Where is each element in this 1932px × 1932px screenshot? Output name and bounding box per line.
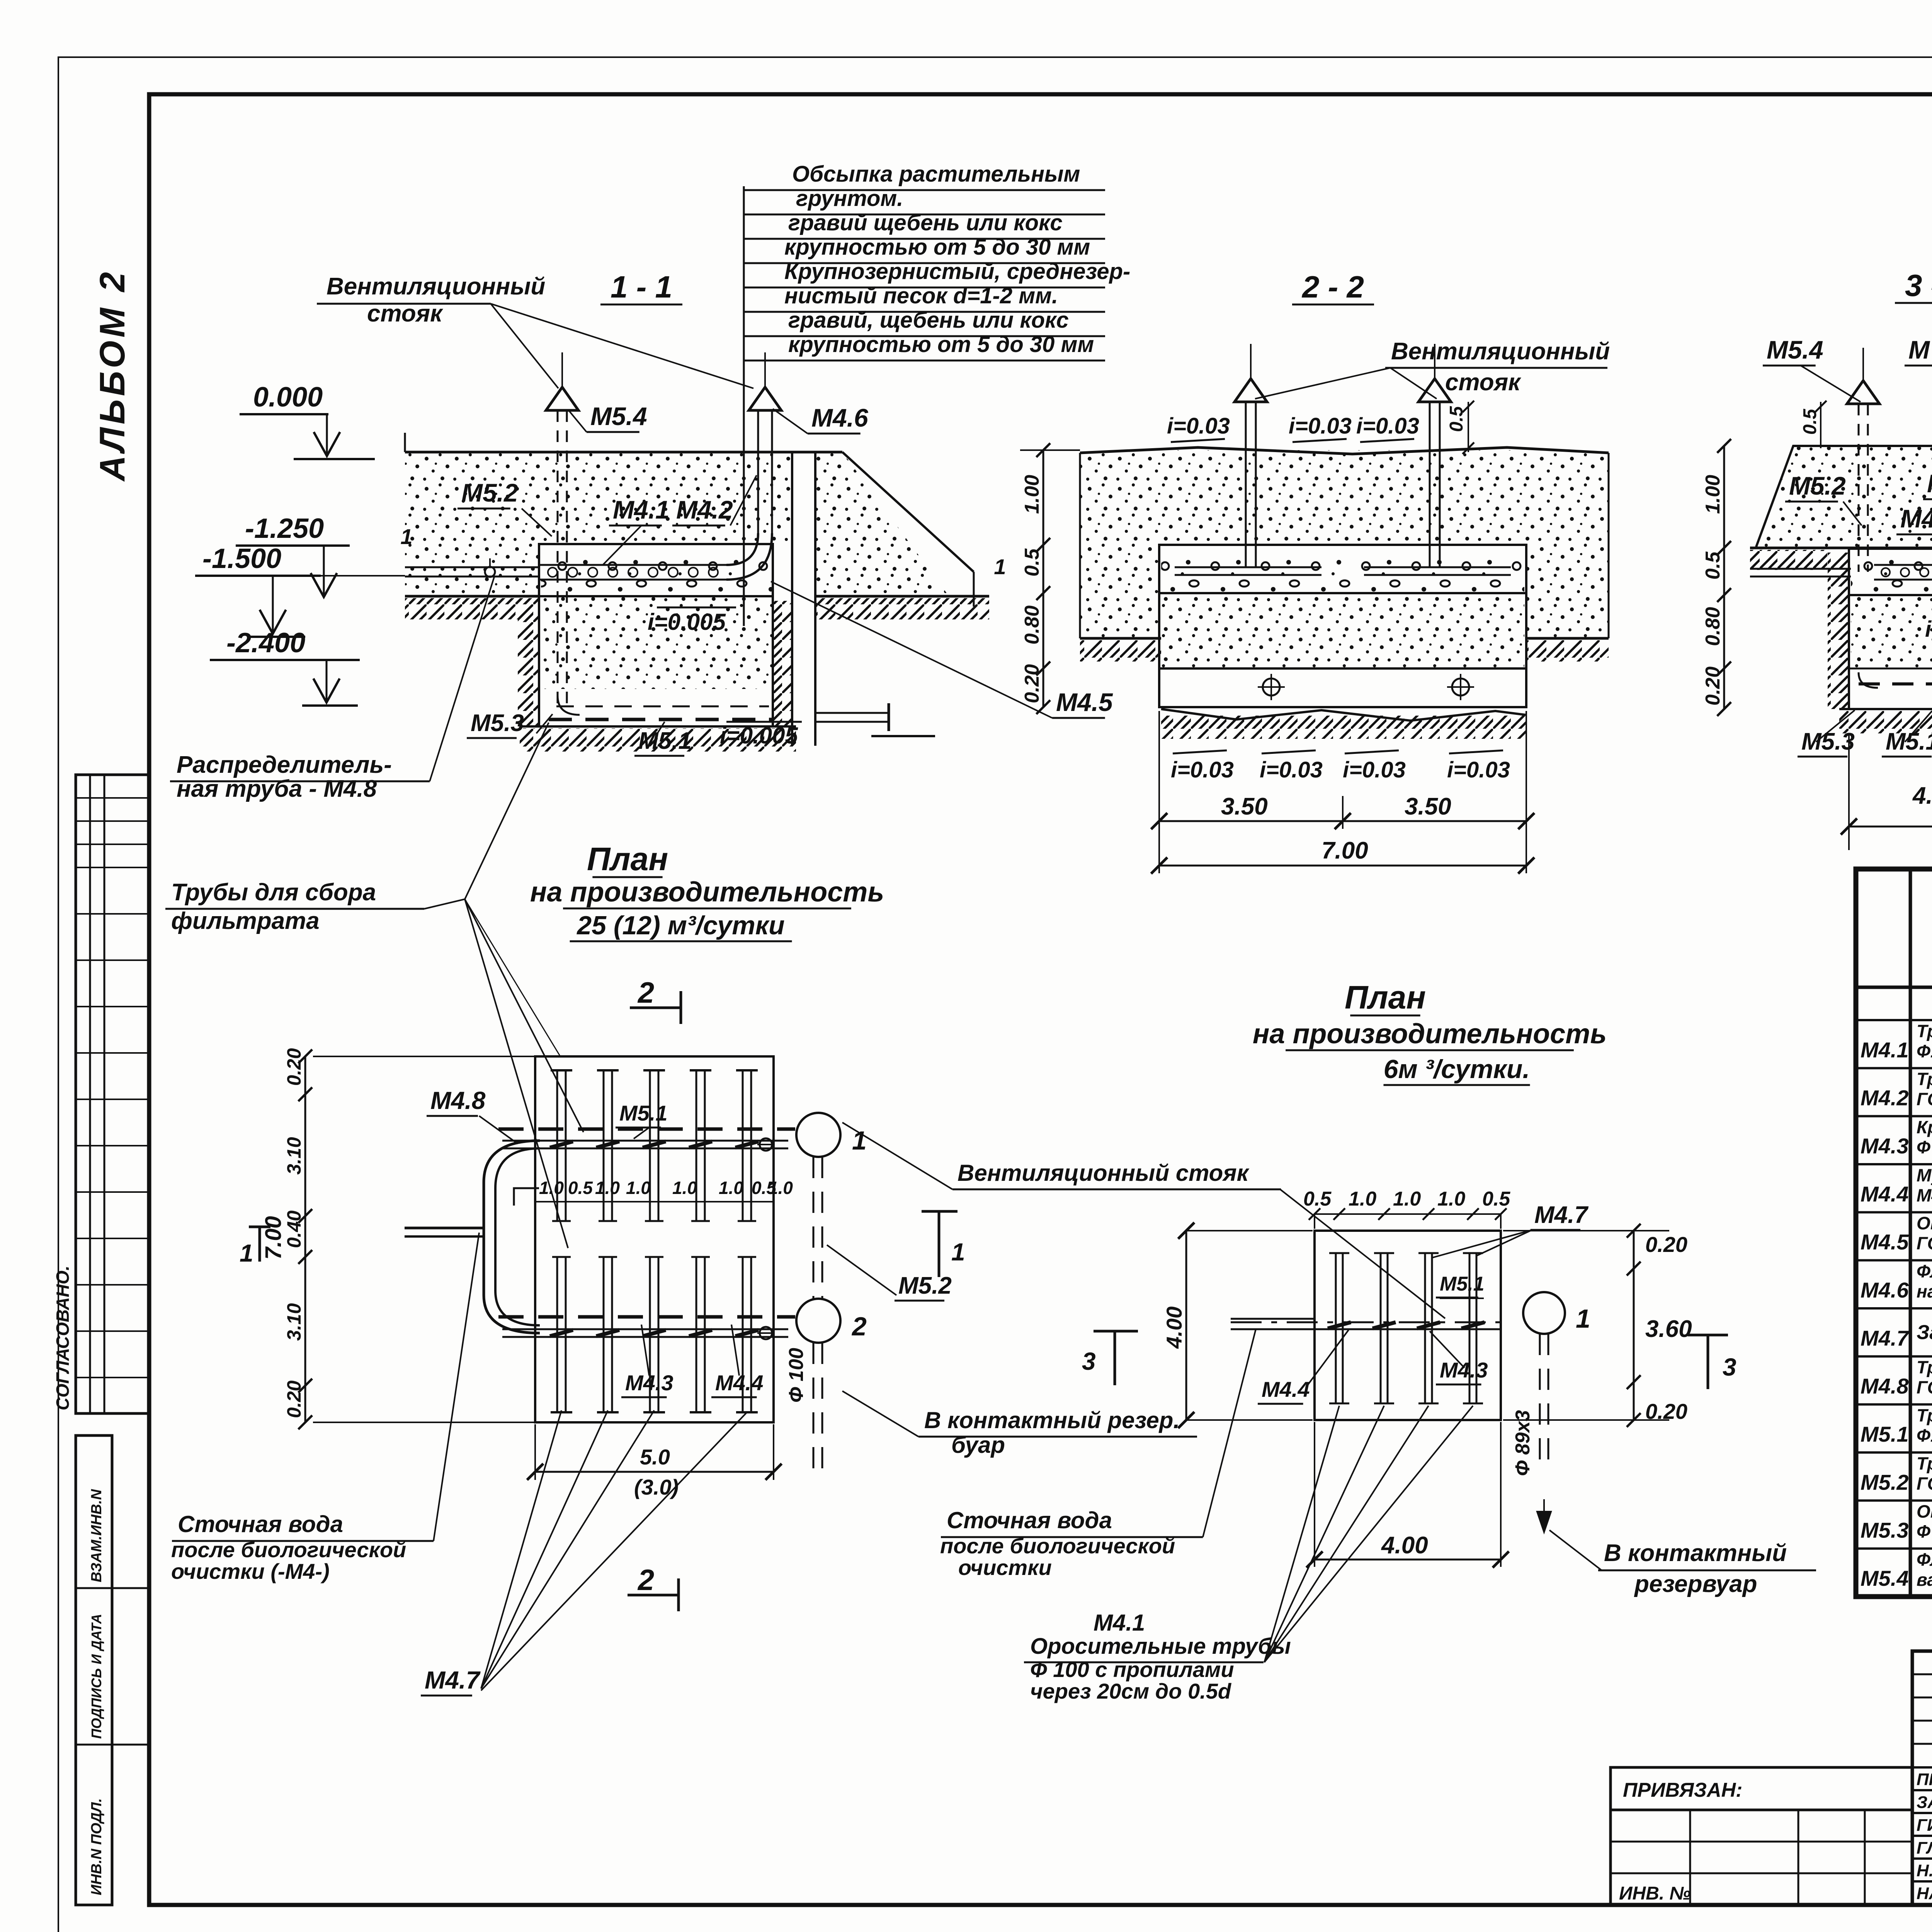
svg-text:Трубы для сбора: Трубы для сбора bbox=[171, 879, 376, 906]
svg-text:М4.2: М4.2 bbox=[1927, 469, 1932, 498]
svg-text:М4.4: М4.4 bbox=[1861, 1182, 1909, 1206]
section 2-2 dimension 7.00 bbox=[1159, 865, 1526, 867]
svg-text:резервуар: резервуар bbox=[1634, 1571, 1757, 1597]
svg-text:1.0: 1.0 bbox=[1393, 1188, 1421, 1210]
table row М4.3 bbox=[1856, 1163, 1932, 1165]
svg-text:М5.3: М5.3 bbox=[471, 710, 524, 736]
svg-text:Распределитель-: Распределитель- bbox=[177, 752, 392, 778]
svg-text:6м ³/сутки.: 6м ³/сутки. bbox=[1384, 1054, 1530, 1084]
section 2-2 vent risers bbox=[1245, 402, 1247, 568]
plan 1 top vent stub cross bbox=[760, 1138, 772, 1151]
svg-text:0.5: 0.5 bbox=[1702, 551, 1724, 580]
svg-text:Оросительные трубы: Оросительные трубы bbox=[1030, 1634, 1291, 1659]
svg-text:ная ГОСТ 19904-74): ная ГОСТ 19904-74) bbox=[1917, 1281, 1932, 1301]
svg-text:Вентиляционный: Вентиляционный bbox=[327, 273, 545, 300]
section 1-1 ground surface line bbox=[405, 451, 842, 454]
section 1-1 trench side hatch left bbox=[518, 601, 539, 726]
svg-text:5.0: 5.0 bbox=[640, 1445, 670, 1469]
title block left grid bbox=[1611, 1810, 1912, 1905]
section 1-1 right slope line bbox=[842, 452, 974, 572]
svg-text:АЛЬБОМ 2: АЛЬБОМ 2 bbox=[93, 269, 132, 482]
plan 1 inlet step symbol bbox=[514, 1188, 539, 1206]
svg-text:2 - 2: 2 - 2 bbox=[1301, 270, 1364, 304]
svg-text:4.00: 4.00 bbox=[1912, 782, 1932, 809]
svg-text:НАЧ.ОТД.: НАЧ.ОТД. bbox=[1917, 1884, 1932, 1903]
drain outlet right bbox=[815, 712, 889, 714]
svg-text:1: 1 bbox=[994, 554, 1006, 579]
section 1-1 trench middle layer bbox=[541, 596, 773, 689]
svg-text:Вентиляционный стояк: Вентиляционный стояк bbox=[957, 1160, 1250, 1186]
svg-text:3: 3 bbox=[1723, 1353, 1736, 1381]
section 1-1 ground line hatch left bbox=[405, 595, 539, 598]
plan 1 bottom collector dashed M5.1 bbox=[498, 1315, 795, 1319]
svg-text:Ф 100 ГОСТ 226899-77: Ф 100 ГОСТ 226899-77 bbox=[1917, 1522, 1932, 1542]
plan 1 top collector dashed M5.1 bbox=[498, 1128, 795, 1131]
svg-text:3 - 3: 3 - 3 bbox=[1905, 268, 1932, 303]
plan 1 top collector pipe M4 bbox=[502, 1140, 788, 1142]
section 1-1 soil fill middle bbox=[539, 452, 792, 545]
section 2-2 left boundary bbox=[1079, 453, 1081, 638]
svg-text:М4.1: М4.1 bbox=[1094, 1610, 1145, 1636]
plan 2 well circle 1 bbox=[1523, 1292, 1565, 1334]
section 2-2 dimension 3.50 3.50 bbox=[1158, 711, 1160, 873]
section 3-3 dimension 4.00 1.00 bbox=[1848, 734, 1850, 850]
section 1-1 trench side hatch right bbox=[773, 601, 792, 726]
section 3-3 perforated pipe bbox=[1874, 564, 1932, 566]
svg-text:0.20: 0.20 bbox=[283, 1048, 305, 1086]
svg-text:2: 2 bbox=[637, 1564, 654, 1597]
plan 1 well circle 1 bbox=[796, 1113, 840, 1157]
svg-text:(3.0): (3.0) bbox=[634, 1475, 679, 1499]
svg-text:М5.1: М5.1 bbox=[638, 728, 692, 754]
section 3-3 mound bbox=[1756, 446, 1932, 547]
svg-text:М4.7: М4.7 bbox=[425, 1666, 481, 1694]
svg-text:Труба стальная Ф108х3: Труба стальная Ф108х3 bbox=[1917, 1357, 1932, 1378]
svg-text:0.5: 0.5 bbox=[1303, 1188, 1332, 1210]
material spec text block bbox=[743, 186, 745, 626]
section 2-2 flank ground hatch right bbox=[1526, 637, 1609, 640]
svg-text:Ф 100х100 МРТУ 21-01-279-69: Ф 100х100 МРТУ 21-01-279-69 bbox=[1917, 1137, 1932, 1157]
section 3-3 left dimension chain bbox=[1723, 446, 1725, 709]
svg-text:М5.3: М5.3 bbox=[1861, 1518, 1909, 1543]
elbow M4.5 to riser bbox=[726, 533, 758, 565]
svg-text:7.00: 7.00 bbox=[1321, 837, 1368, 864]
svg-text:Сточная вода: Сточная вода bbox=[947, 1507, 1112, 1533]
section 2-2 soil left flank bbox=[1080, 450, 1159, 638]
svg-text:0.5: 0.5 bbox=[568, 1178, 593, 1198]
section 2-2 perforated pipes in upper layer bbox=[1175, 566, 1321, 568]
plan 1 laterals bottom row bbox=[556, 1257, 558, 1412]
svg-text:М4.5: М4.5 bbox=[1056, 688, 1113, 716]
svg-text:3.50: 3.50 bbox=[1221, 793, 1268, 820]
svg-text:1.00: 1.00 bbox=[1702, 475, 1724, 514]
svg-text:М4.1: М4.1 bbox=[1900, 504, 1932, 533]
svg-text:ванная ГОСТ 19904-74): ванная ГОСТ 19904-74) bbox=[1917, 1570, 1932, 1590]
svg-text:крупностью от 5 до 30 мм: крупностью от 5 до 30 мм bbox=[788, 332, 1094, 357]
supply pipe M4.8 horizontal bbox=[405, 566, 539, 568]
section 2-2 right boundary bbox=[1608, 453, 1610, 638]
svg-text:i=0.03: i=0.03 bbox=[1167, 413, 1230, 439]
svg-text:СОГЛАСОВАНО.: СОГЛАСОВАНО. bbox=[53, 1265, 73, 1410]
svg-text:М5.2: М5.2 bbox=[1789, 471, 1846, 500]
table row М4.2 bbox=[1856, 1115, 1932, 1117]
svg-text:М4.1: М4.1 bbox=[613, 495, 670, 524]
svg-text:Крестовина полиэтиленовая: Крестовина полиэтиленовая bbox=[1917, 1117, 1932, 1137]
svg-text:через 20см до 0.5d: через 20см до 0.5d bbox=[1030, 1679, 1232, 1703]
svg-text:3: 3 bbox=[1082, 1347, 1096, 1375]
drain pipe M5.1 dashed bottom bbox=[549, 718, 773, 721]
svg-text:ВЗАМ.ИНВ.N: ВЗАМ.ИНВ.N bbox=[88, 1489, 105, 1582]
svg-text:М4.2: М4.2 bbox=[1861, 1086, 1909, 1110]
svg-text:2: 2 bbox=[851, 1312, 867, 1341]
svg-text:после биологической: после биологической bbox=[940, 1534, 1175, 1558]
svg-text:0.80: 0.80 bbox=[1702, 607, 1724, 646]
svg-text:ИНВ.N ПОДЛ.: ИНВ.N ПОДЛ. bbox=[88, 1798, 105, 1895]
svg-text:М5.1: М5.1 bbox=[619, 1101, 668, 1125]
svg-text:i=0.03: i=0.03 bbox=[1260, 757, 1323, 782]
plan 1 junction crosses top bbox=[550, 1141, 573, 1148]
svg-text:М5.1: М5.1 bbox=[1440, 1273, 1485, 1295]
svg-text:ГОСТ 1839-80: ГОСТ 1839-80 bbox=[1917, 1473, 1932, 1493]
section 1-1 ground line hatch right bbox=[815, 595, 989, 598]
svg-text:-1.250: -1.250 bbox=[245, 513, 324, 544]
perforated pipe M4.1 bbox=[539, 564, 726, 566]
stamp cells bottom labels bbox=[76, 1435, 112, 1905]
svg-text:Труба асбестоцементая: Труба асбестоцементая bbox=[1917, 1405, 1932, 1425]
svg-text:-1.500: -1.500 bbox=[202, 543, 281, 574]
svg-text:i=0.005: i=0.005 bbox=[720, 723, 798, 748]
svg-text:М4.8: М4.8 bbox=[1861, 1374, 1909, 1398]
materials table column lines bbox=[1909, 869, 1912, 1597]
riser pipe M4.2 M4.6 vertical bbox=[757, 410, 759, 533]
plan 1 left supply riser M4.8 bbox=[484, 1141, 540, 1333]
svg-text:Ф100 ГОСТ 1859-80 с пропилами: Ф100 ГОСТ 1859-80 с пропилами bbox=[1917, 1425, 1932, 1446]
section 1-1 trench outline bbox=[539, 544, 773, 726]
svg-text:М5.4: М5.4 bbox=[1767, 335, 1823, 364]
svg-text:Сточная вода: Сточная вода bbox=[178, 1511, 343, 1537]
svg-text:Н.КОНТР.: Н.КОНТР. bbox=[1917, 1861, 1932, 1880]
svg-text:-2.400: -2.400 bbox=[226, 628, 305, 658]
svg-text:0.20: 0.20 bbox=[283, 1380, 305, 1418]
section 3-3 flank hatch left bbox=[1750, 550, 1827, 570]
svg-text:0.40: 0.40 bbox=[283, 1210, 305, 1248]
svg-text:Труба асбестоцементная: Труба асбестоцементная bbox=[1917, 1021, 1932, 1041]
svg-text:1.0: 1.0 bbox=[595, 1178, 620, 1198]
svg-text:i=0.03: i=0.03 bbox=[1289, 413, 1352, 439]
section 3-3 drain dashed bbox=[1859, 682, 1932, 685]
svg-text:ЗАВ. ГР.: ЗАВ. ГР. bbox=[1917, 1793, 1932, 1812]
svg-text:М5.4: М5.4 bbox=[590, 402, 647, 430]
svg-text:0.20: 0.20 bbox=[1645, 1399, 1687, 1423]
svg-text:Ф 100: Ф 100 bbox=[785, 1348, 808, 1403]
svg-text:0.5: 0.5 bbox=[1021, 548, 1043, 577]
table row М5.1 bbox=[1856, 1451, 1932, 1454]
title block signature grid bbox=[1912, 1651, 1932, 1905]
plan 1 rectangle bbox=[535, 1056, 774, 1422]
section 1-1 section cut strip verticals bbox=[791, 452, 793, 746]
section 2-2 soil right flank bbox=[1526, 450, 1609, 638]
svg-text:3.60: 3.60 bbox=[1645, 1316, 1692, 1342]
svg-text:1: 1 bbox=[400, 524, 412, 549]
section 3-3 ground line bbox=[1750, 547, 1932, 549]
svg-text:на производительность: на производительность bbox=[1253, 1019, 1607, 1049]
plan 2 laterals bbox=[1335, 1253, 1337, 1403]
svg-text:Труба асбестоцементная Ф100: Труба асбестоцементная Ф100 bbox=[1917, 1453, 1932, 1473]
table row М5.3 bbox=[1856, 1548, 1932, 1550]
svg-text:М4.6: М4.6 bbox=[1861, 1278, 1909, 1302]
svg-text:i=0.03: i=0.03 bbox=[1171, 757, 1234, 782]
svg-text:Вентиляционный: Вентиляционный bbox=[1391, 338, 1610, 365]
vent cap M4.6 on riser bbox=[749, 387, 781, 410]
valve on supply pipe bbox=[485, 567, 495, 577]
long leader from vent label to plans bbox=[465, 899, 560, 1056]
section 1-1 soil right slope bbox=[815, 452, 974, 596]
svg-text:гравий щебень или кокс: гравий щебень или кокс bbox=[788, 210, 1063, 235]
svg-text:М5.2: М5.2 bbox=[898, 1272, 952, 1299]
svg-text:3.10: 3.10 bbox=[283, 1303, 305, 1341]
svg-text:М4.7: М4.7 bbox=[1534, 1202, 1588, 1228]
svg-text:очистки (-М4-): очистки (-М4-) bbox=[171, 1559, 330, 1583]
drain elbow bottom left bbox=[558, 696, 580, 715]
svg-text:План: План bbox=[1345, 979, 1426, 1015]
svg-text:1.0: 1.0 bbox=[672, 1178, 697, 1198]
svg-text:0.80: 0.80 bbox=[1021, 605, 1043, 645]
table row М4.7 bbox=[1856, 1355, 1932, 1357]
svg-text:0.20: 0.20 bbox=[1021, 664, 1043, 703]
svg-text:М4.5: М4.5 bbox=[1861, 1230, 1909, 1254]
svg-text:М5.4: М5.4 bbox=[1861, 1566, 1909, 1590]
svg-text:В контактный резер.: В контактный резер. bbox=[924, 1407, 1180, 1433]
plan 1 bottom dimension 5.0 bbox=[535, 1471, 774, 1473]
materials table outer bbox=[1856, 869, 1932, 1597]
section 3-3 bottom hatch bbox=[1839, 708, 1932, 710]
svg-text:1: 1 bbox=[240, 1239, 253, 1267]
svg-text:М4.7: М4.7 bbox=[1861, 1326, 1910, 1350]
section 3-3 drain elbow left bbox=[1859, 672, 1878, 688]
svg-text:i=0.03: i=0.03 bbox=[1356, 413, 1419, 439]
plan 2 inlet double line bbox=[1231, 1318, 1315, 1320]
svg-text:стояк: стояк bbox=[1445, 369, 1521, 396]
svg-text:М4 300.9-61: М4 300.9-61 bbox=[1917, 1185, 1932, 1205]
section 1-1 soil fill left bbox=[405, 452, 539, 595]
svg-text:М4.3: М4.3 bbox=[1440, 1358, 1488, 1382]
plan 1 left dimension chain bbox=[304, 1056, 306, 1422]
plan 1 bottom vent stub cross bbox=[760, 1327, 772, 1339]
svg-text:Ф100 ГОСТ 1839-80 с пропилами: Ф100 ГОСТ 1839-80 с пропилами bbox=[1917, 1041, 1932, 1061]
svg-text:Труба асбестоцементная Ф100: Труба асбестоцементная Ф100 bbox=[1917, 1069, 1932, 1089]
svg-text:Ф 100 с пропилами: Ф 100 с пропилами bbox=[1030, 1657, 1234, 1682]
svg-text:0.5: 0.5 bbox=[1800, 408, 1820, 435]
plan 2 rectangle bbox=[1315, 1231, 1501, 1420]
table row М4.6 bbox=[1856, 1307, 1932, 1310]
svg-text:Крупнозернистый, среднезер-: Крупнозернистый, среднезер- bbox=[784, 259, 1130, 284]
svg-text:Отвод полиэтиленовый: Отвод полиэтиленовый bbox=[1917, 1502, 1932, 1522]
svg-text:М 4.6: М 4.6 bbox=[1908, 335, 1932, 364]
section 3-3 trench bbox=[1851, 551, 1932, 595]
svg-text:0.5: 0.5 bbox=[1446, 406, 1467, 432]
plan 2 junction crosses bbox=[1328, 1322, 1351, 1328]
section 2-2 ground surface wavy bbox=[1080, 447, 1609, 454]
section 2-2 soil above trench bbox=[1159, 450, 1526, 545]
svg-text:3.50: 3.50 bbox=[1405, 793, 1451, 820]
svg-text:0.5: 0.5 bbox=[1482, 1188, 1510, 1210]
svg-text:1.0: 1.0 bbox=[626, 1178, 651, 1198]
plan 2 supply pipe dashdot bbox=[1231, 1321, 1509, 1323]
svg-text:М4.4: М4.4 bbox=[1262, 1377, 1310, 1401]
table row М5.2 bbox=[1856, 1499, 1932, 1502]
svg-text:ГЛ.СПЕЦ: ГЛ.СПЕЦ bbox=[1917, 1838, 1932, 1857]
svg-text:М4.3: М4.3 bbox=[1861, 1134, 1909, 1158]
svg-text:М5.1: М5.1 bbox=[1861, 1422, 1909, 1446]
svg-text:i=0.005: i=0.005 bbox=[1925, 617, 1932, 642]
svg-text:0.000: 0.000 bbox=[253, 382, 323, 413]
plan 1 bottom collector pipe M4 bbox=[502, 1328, 788, 1330]
plan 1 inlet pipe bbox=[405, 1227, 484, 1230]
svg-text:ГОСТ 10704-76: ГОСТ 10704-76 bbox=[1917, 1378, 1932, 1398]
section 1-1 trench box upper layer bbox=[541, 546, 773, 594]
section 2-2 trench upper layer gravel bbox=[1161, 547, 1524, 593]
svg-text:1.0: 1.0 bbox=[1437, 1188, 1465, 1210]
svg-text:План: План bbox=[587, 841, 668, 877]
svg-text:очистки: очистки bbox=[958, 1555, 1052, 1580]
svg-text:Муфта полиэтиленовая пнп: Муфта полиэтиленовая пнп bbox=[1917, 1165, 1932, 1185]
plan 2 right dimension chain bbox=[1633, 1231, 1635, 1420]
section 2-2 flank ground hatch left bbox=[1080, 637, 1161, 640]
vent cap M5.4 pipe dashed M5.2 bbox=[557, 410, 559, 707]
svg-text:1.0: 1.0 bbox=[539, 1178, 564, 1198]
svg-text:i=0.03: i=0.03 bbox=[1343, 757, 1406, 782]
svg-text:0.20: 0.20 bbox=[1645, 1232, 1687, 1257]
section 3-3 vent M5.4 bbox=[1858, 404, 1860, 572]
svg-text:25 (12) м³/сутки: 25 (12) м³/сутки bbox=[576, 911, 784, 940]
svg-text:ПОДПИСЬ И ДАТА: ПОДПИСЬ И ДАТА bbox=[88, 1614, 104, 1739]
svg-text:1: 1 bbox=[1576, 1304, 1590, 1333]
svg-text:ГИП: ГИП bbox=[1917, 1816, 1932, 1835]
svg-text:М5.1: М5.1 bbox=[1886, 728, 1932, 755]
svg-text:1.0: 1.0 bbox=[719, 1178, 743, 1198]
svg-text:М5.2: М5.2 bbox=[1861, 1470, 1909, 1494]
svg-text:фильтрата: фильтрата bbox=[171, 908, 320, 934]
title block privjazan box bbox=[1611, 1767, 1912, 1810]
section 2-2 left dimension chain bbox=[1043, 450, 1044, 707]
svg-text:3.10: 3.10 bbox=[283, 1137, 305, 1175]
svg-text:1.00: 1.00 bbox=[1021, 475, 1043, 514]
plan 1 outlet dashed F100 bbox=[813, 1157, 815, 1299]
plan 1 well circle 2 bbox=[796, 1299, 840, 1343]
stamp column grid upper bbox=[76, 775, 150, 1413]
svg-text:4.00: 4.00 bbox=[1381, 1532, 1428, 1559]
svg-text:ная труба - М4.8: ная труба - М4.8 bbox=[177, 776, 377, 802]
section 3-3 side hatch left bbox=[1828, 553, 1849, 709]
leader to vents 1-1 bbox=[491, 304, 558, 388]
plan 2 bottom dimension 4.00 bbox=[1315, 1559, 1501, 1561]
svg-text:1 - 1: 1 - 1 bbox=[611, 270, 672, 304]
svg-text:7.00: 7.00 bbox=[261, 1216, 286, 1260]
svg-text:1.0: 1.0 bbox=[1349, 1188, 1376, 1210]
section 2-2 bottom wavy hatch bbox=[1161, 709, 1526, 721]
svg-text:Флюгарка (сталь оцинкован: Флюгарка (сталь оцинкован bbox=[1917, 1261, 1932, 1281]
svg-text:1: 1 bbox=[951, 1238, 965, 1266]
section 2-2 trench bottom drain layer bbox=[1159, 668, 1526, 707]
svg-text:М4.2: М4.2 bbox=[676, 495, 733, 524]
svg-text:ИНВ. №: ИНВ. № bbox=[1619, 1883, 1691, 1904]
plan 1 laterals top row bbox=[556, 1070, 558, 1221]
svg-text:ГОСТ 22689.9-77 Ф 100: ГОСТ 22689.9-77 Ф 100 bbox=[1917, 1233, 1932, 1253]
svg-text:ПРОВЕР.: ПРОВЕР. bbox=[1917, 1770, 1932, 1789]
svg-text:i=0.03: i=0.03 bbox=[1447, 757, 1510, 782]
svg-text:Заглушка ГОСТ 22689.16-77.: Заглушка ГОСТ 22689.16-77. bbox=[1917, 1321, 1932, 1344]
svg-text:крупностью от 5 до 30 мм: крупностью от 5 до 30 мм bbox=[784, 235, 1090, 260]
svg-text:1.0: 1.0 bbox=[768, 1178, 793, 1198]
svg-text:М4.1: М4.1 bbox=[1861, 1037, 1909, 1062]
section 3-3 supply pipe left bbox=[1750, 568, 1851, 570]
plan 1 junction crosses bottom bbox=[550, 1330, 573, 1336]
table row М4.4 bbox=[1856, 1211, 1932, 1213]
svg-text:ГОСТ 1839-80: ГОСТ 1839-80 bbox=[1917, 1089, 1932, 1109]
svg-text:М4.6: М4.6 bbox=[811, 403, 869, 432]
section 1-1 trench bottom line and hatch bbox=[520, 725, 796, 728]
svg-text:гравий, щебень или кокс: гравий, щебень или кокс bbox=[788, 308, 1069, 333]
svg-text:i=0.005: i=0.005 bbox=[648, 609, 726, 635]
svg-text:М5.2: М5.2 bbox=[461, 478, 518, 507]
svg-text:0.20: 0.20 bbox=[1702, 667, 1724, 706]
table row М4.1 bbox=[1856, 1067, 1932, 1069]
plan 2 outlet dashed F89 bbox=[1539, 1334, 1541, 1472]
svg-text:на производительность: на производительность bbox=[530, 877, 884, 908]
svg-text:4.00: 4.00 bbox=[1162, 1306, 1186, 1349]
svg-text:грунтом.: грунтом. bbox=[796, 186, 903, 211]
svg-text:Обсыпка растительным: Обсыпка растительным bbox=[792, 162, 1080, 187]
svg-text:В контактный: В контактный bbox=[1604, 1540, 1787, 1566]
svg-text:2: 2 bbox=[637, 976, 654, 1009]
svg-text:после биологической: после биологической bbox=[171, 1537, 406, 1562]
svg-text:Отвод полиэтиленовый: Отвод полиэтиленовый bbox=[1917, 1213, 1932, 1233]
table row М4.5 bbox=[1856, 1259, 1932, 1262]
svg-text:М4.8: М4.8 bbox=[430, 1087, 486, 1114]
svg-text:Флюгарка (сталь оцинко-: Флюгарка (сталь оцинко- bbox=[1917, 1549, 1932, 1570]
table row М4.8 bbox=[1856, 1403, 1932, 1406]
svg-text:нистый песок d=1-2 мм.: нистый песок d=1-2 мм. bbox=[784, 283, 1058, 308]
section 2-2 trench middle layer bbox=[1161, 593, 1524, 668]
svg-text:ПРИВЯЗАН:: ПРИВЯЗАН: bbox=[1623, 1779, 1743, 1801]
plan 2 left dimension 4.00 bbox=[1185, 1231, 1187, 1420]
